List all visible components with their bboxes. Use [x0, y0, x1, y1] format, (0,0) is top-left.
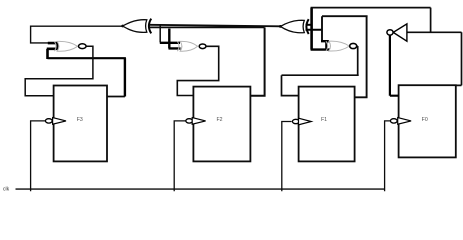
wire inverter U4 output down to F0 D input [390, 35, 399, 95]
F2 clock input triangle [192, 118, 205, 125]
XNOR U1 output bubble [79, 44, 87, 49]
flip-flop F2 box [193, 87, 250, 162]
F1 clock input triangle [299, 118, 312, 125]
flip-flop F0 box [399, 85, 456, 157]
gate G1 (left-facing XOR, top left) output tip dot [121, 25, 124, 28]
XNOR U3 output bubble [350, 43, 357, 48]
XNOR U3 input leads [311, 41, 331, 50]
wire F0 Q vertical feed (node F0Q) [310, 8, 313, 50]
wire clk riser to F2 [174, 121, 186, 191]
flip-flop F1 box [299, 87, 355, 162]
XNOR U2 input leads [160, 43, 181, 49]
clk bus wire [16, 188, 385, 190]
wire clk riser to F0 [385, 121, 391, 191]
XNOR gate U1 body [54, 41, 77, 51]
wire gate G2 input stub lower (from F1 Q net) [306, 29, 323, 31]
wire F3 Q riser [124, 58, 126, 96]
wire F3 Q output loop to XNOR U1 input B [107, 96, 125, 98]
wire F3 Q up into XNOR U1 [46, 49, 49, 59]
wire XNOR U1 output to F3 D input [25, 46, 93, 96]
XNOR U1 input leads [47, 43, 59, 50]
wire clk riser to F3 [31, 121, 46, 191]
XNOR U2 output bubble [199, 44, 206, 49]
wire F1 Q output to XNOR U3 input A [322, 16, 368, 98]
wire clk riser to F1 [282, 122, 292, 192]
F3 clock input bubble [45, 119, 52, 123]
inverter U4 triangle [393, 24, 407, 41]
XNOR gate U3 body [326, 41, 349, 51]
wire F2 Q line to gate G1 input (lower parallel line) [150, 26, 265, 28]
gate G2 (left-facing XOR, top middle) output tip dot [279, 25, 282, 28]
wire XNOR U2 output to F2 D input [177, 46, 218, 95]
gate G2 body [280, 19, 308, 34]
gate G1 body [123, 19, 152, 34]
wire gate G2 output line to gate G1 input (upper parallel line) [150, 25, 281, 27]
wire tap from upper line down to XNOR U2 input A [159, 25, 161, 43]
flip-flop F3 box [54, 86, 107, 162]
XNOR gate U2 body [177, 41, 197, 51]
wire XNOR U3 output to F1 D input [282, 46, 359, 96]
F0 clock input bubble [390, 119, 397, 123]
wire tap from lower line down to XNOR U2 input B [168, 29, 170, 49]
svg-text:F2: F2 [216, 117, 222, 123]
wire F2 Q output up to lower parallel line [250, 27, 264, 96]
wire F3 Q horizontal [48, 57, 126, 59]
F2 clock input bubble [186, 119, 193, 123]
svg-text:F1: F1 [321, 117, 327, 123]
F1 clock input bubble [292, 119, 299, 123]
wire gate G1 output to XNOR U1 input A (top left loop) [31, 26, 123, 43]
wire gate G2 input stub upper (from F0 Q net) [306, 24, 312, 26]
svg-text:F3: F3 [77, 117, 83, 123]
inverter U4 output bubble [387, 30, 393, 35]
svg-text:F0: F0 [422, 117, 428, 123]
F0 clock input triangle [398, 118, 411, 125]
svg-text:clk: clk [3, 187, 10, 193]
wire inverter input from F0 Q net [407, 32, 462, 85]
F3 clock input triangle [53, 118, 66, 125]
wire F0 Q net top run to right [311, 8, 431, 33]
